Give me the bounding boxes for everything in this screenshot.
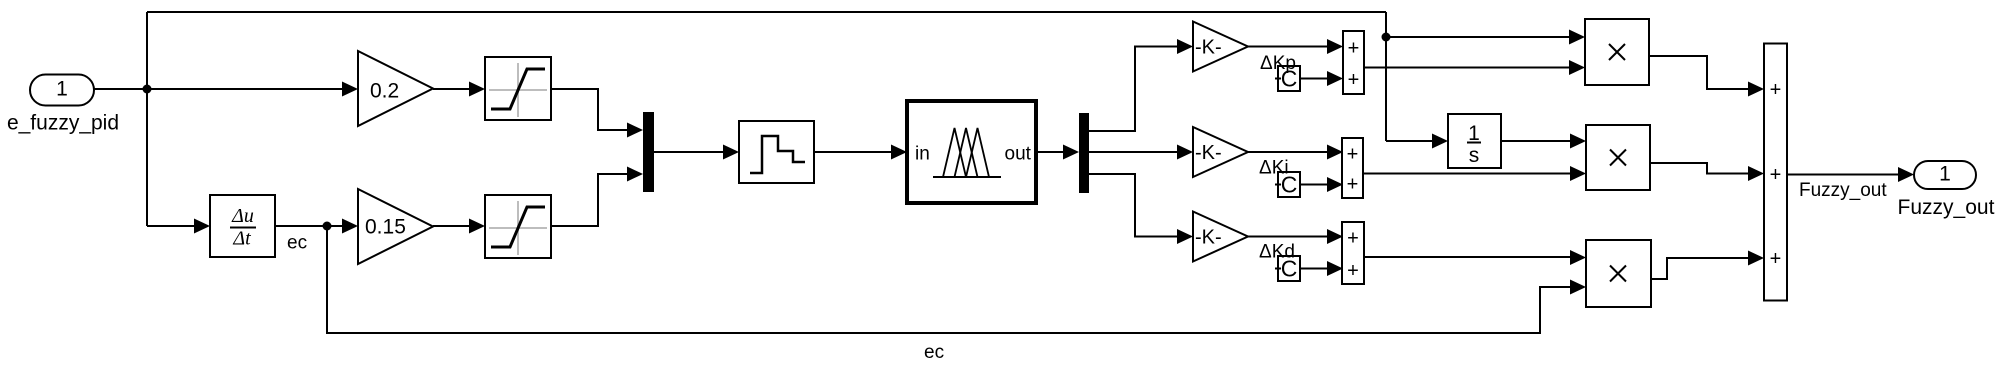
saturation block 2 xyxy=(485,195,551,258)
svg-text:+: + xyxy=(1770,248,1782,270)
svg-text:+: + xyxy=(1348,38,1360,60)
wire ec long bottom feedback xyxy=(327,226,1586,333)
product block 2 xyxy=(1586,125,1650,190)
wire top bypass vertical at x=147 xyxy=(146,12,148,226)
svg-text:+: + xyxy=(1347,260,1359,282)
big sum block xyxy=(1764,44,1787,301)
svg-text:in: in xyxy=(915,144,930,165)
wire gain 0.2 to saturation 1 xyxy=(433,82,485,97)
svg-text:-K-: -K- xyxy=(1195,142,1222,164)
wire integrator to product 2 xyxy=(1501,134,1586,149)
wire fuzzy controller to demux xyxy=(1036,145,1079,160)
wire mux to quantizer xyxy=(654,145,739,160)
svg-text:ec: ec xyxy=(287,233,307,254)
constant C2 xyxy=(1275,172,1300,198)
derivative block Du/Dt xyxy=(210,195,275,257)
gain K1 xyxy=(1193,22,1248,72)
wire ec junction to gain 0.15 xyxy=(327,219,358,234)
wire demux output 3 to gain K3 xyxy=(1089,174,1193,244)
svg-text:1: 1 xyxy=(1939,163,1951,186)
svg-text:1: 1 xyxy=(56,78,68,101)
svg-text:C: C xyxy=(1281,66,1298,92)
constant C1 xyxy=(1275,66,1300,92)
svg-text:out: out xyxy=(1005,144,1032,165)
wire quantizer to fuzzy controller xyxy=(814,145,907,160)
svg-text:0.2: 0.2 xyxy=(370,80,399,103)
svg-text:+: + xyxy=(1347,144,1359,166)
svg-text:C: C xyxy=(1281,256,1298,282)
wire demux output 1 to gain K1 xyxy=(1089,39,1193,131)
svg-text:e_fuzzy_pid: e_fuzzy_pid xyxy=(7,112,119,135)
wire gain K1 to sum 1 xyxy=(1248,39,1343,54)
node junction ec xyxy=(323,222,332,231)
fuzzy logic controller block xyxy=(907,101,1036,203)
svg-text:Fuzzy_out: Fuzzy_out xyxy=(1799,180,1887,201)
svg-text:-K-: -K- xyxy=(1195,227,1222,249)
wire input junction down to derivative xyxy=(147,219,210,234)
wire top bypass right vertical down to integrator row xyxy=(1385,12,1387,141)
svg-text:s: s xyxy=(1469,144,1480,167)
sum block 1 xyxy=(1343,31,1364,94)
gain 0.2 xyxy=(358,51,433,126)
svg-text:+: + xyxy=(1348,69,1360,91)
wire from input port to junction xyxy=(93,88,147,90)
input port 1 e_fuzzy_pid xyxy=(7,75,119,135)
wire constant C3 to sum 3 xyxy=(1300,261,1343,276)
product block 3 xyxy=(1586,240,1651,307)
wire gain 0.15 to saturation 2 xyxy=(433,219,485,234)
svg-text:+: + xyxy=(1770,79,1782,101)
wire saturation 1 to mux input 1 xyxy=(551,89,643,138)
wire input to gain 0.2 xyxy=(147,82,358,97)
demux block xyxy=(1079,113,1089,193)
wire constant C2 to sum 2 xyxy=(1300,177,1343,192)
saturation block 1 xyxy=(485,57,551,120)
product block 1 xyxy=(1585,19,1649,85)
wire top bypass horizontal xyxy=(147,11,1386,13)
svg-text:Fuzzy_out: Fuzzy_out xyxy=(1898,196,1995,219)
svg-text:-K-: -K- xyxy=(1195,37,1222,59)
sum block 3 xyxy=(1342,222,1364,284)
svg-text:ec: ec xyxy=(924,342,944,363)
svg-text:+: + xyxy=(1347,174,1359,196)
svg-text:+: + xyxy=(1347,228,1359,250)
gain K2 xyxy=(1193,127,1248,177)
wire sum 2 to product 2 xyxy=(1363,166,1586,181)
svg-text:Δu: Δu xyxy=(231,205,254,227)
quantizer block xyxy=(739,121,814,183)
node junction at input branch xyxy=(143,85,152,94)
svg-text:+: + xyxy=(1770,164,1782,186)
wire junction vertical to integrator input xyxy=(1386,134,1448,149)
wire sum 3 to product 3 xyxy=(1364,250,1586,265)
wire product 2 to big sum input 2 xyxy=(1650,163,1764,181)
output port 1 Fuzzy_out xyxy=(1898,161,1995,219)
gain 0.15 xyxy=(358,189,433,264)
wire saturation 2 to mux input 2 xyxy=(551,167,643,227)
wire demux output 2 to gain K2 xyxy=(1089,145,1193,160)
wire big sum to output port xyxy=(1787,167,1914,182)
sum block 2 xyxy=(1342,138,1363,198)
wire junction to product1 input1 xyxy=(1386,30,1585,45)
wire constant C1 to sum 1 xyxy=(1300,71,1343,86)
wire sum 1 to product 1 xyxy=(1364,60,1585,75)
svg-text:Δt: Δt xyxy=(232,228,251,250)
integrator block 1/s xyxy=(1448,114,1501,168)
mux block xyxy=(643,112,654,192)
constant C3 xyxy=(1275,256,1300,282)
node junction top right xyxy=(1382,33,1391,42)
svg-text:0.15: 0.15 xyxy=(365,216,406,239)
gain K3 xyxy=(1193,212,1248,262)
wire gain K3 to sum 3 xyxy=(1248,229,1343,244)
wire derivative output to junction ec xyxy=(275,225,327,227)
wire gain K2 to sum 2 xyxy=(1248,145,1343,160)
svg-text:C: C xyxy=(1281,172,1298,198)
wire product 1 to big sum input 1 xyxy=(1649,56,1764,97)
wire product 3 to big sum input 3 xyxy=(1651,251,1764,280)
